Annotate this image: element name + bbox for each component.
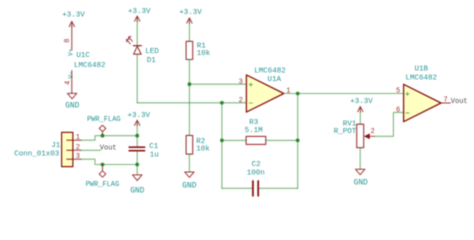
svg-text:3: 3 (239, 78, 243, 86)
svg-text:GND: GND (65, 102, 79, 111)
svg-text:+3.3V: +3.3V (128, 8, 151, 16)
svg-text:C1: C1 (149, 143, 159, 151)
power +3.3V (C1 / J1 rail) (128, 112, 151, 136)
wire RV1 bottom to ground (359, 148, 361, 169)
junction R3 right node (296, 139, 300, 143)
svg-text:1: 1 (76, 134, 80, 142)
svg-text:U1C: U1C (76, 52, 90, 60)
svg-text:Conn_01x03: Conn_01x03 (14, 151, 60, 159)
potentiometer RV1 R_POT (334, 120, 375, 147)
wire rail to C1 top plate (136, 136, 138, 147)
wire inverting node down (feedback left leg) (221, 103, 223, 189)
power flag PWR_FLAG (bottom) (86, 165, 120, 190)
wire junction to U1A pin 3 (189, 83, 246, 85)
svg-text:7: 7 (443, 97, 447, 105)
svg-text:U1B: U1B (415, 66, 429, 74)
junction PWR_FLAG top / +3.3V rail (101, 134, 105, 138)
wire output node down (feedback right leg) (297, 94, 299, 189)
svg-text:2: 2 (239, 97, 243, 105)
ground (RV1) (354, 169, 368, 187)
svg-text:Vout: Vout (100, 145, 117, 153)
svg-text:3: 3 (76, 153, 80, 161)
resistor R3 5.1M (245, 119, 266, 144)
capacitor C2 100n (247, 161, 265, 196)
junction inverting input node (220, 101, 224, 105)
wire node to U1A pin 2 (137, 102, 246, 104)
svg-text:5.1M: 5.1M (245, 127, 264, 135)
wire U1A output to U1B pin 5 (284, 93, 404, 95)
wire R3 left (222, 139, 246, 141)
svg-text:GND: GND (130, 186, 144, 195)
svg-text:+3.3V: +3.3V (62, 12, 85, 20)
op-amp U1C reference and value (74, 52, 106, 70)
svg-text:PWR_FLAG: PWR_FLAG (87, 116, 121, 124)
J1 pin 2 (73, 144, 81, 152)
U1B pin 7 output stub (441, 102, 450, 104)
svg-text:+3.3V: +3.3V (350, 98, 373, 106)
J1 pin 1 (73, 134, 81, 142)
svg-text:1u: 1u (150, 152, 159, 160)
op-amp U1C power unit pin 8 (V+) (64, 26, 75, 56)
svg-text:8: 8 (64, 39, 72, 43)
wire LED anode down to inverting input node (136, 54, 138, 103)
junction C1 bottom / GND rail (135, 163, 139, 167)
power flag PWR_FLAG (top) (87, 116, 121, 136)
svg-text:5: 5 (396, 87, 400, 95)
wire +3.3V to LED cathode (136, 21, 138, 46)
wire J1 pin2 stub for Vout label (81, 149, 101, 151)
connector J1 Conn_01x03 (14, 132, 73, 166)
wire RV1 wiper to U1B pin 6 (375, 112, 404, 136)
svg-text:6: 6 (396, 106, 400, 114)
svg-text:+3.3V: +3.3V (128, 112, 151, 120)
wire R2 to ground (188, 154, 190, 172)
svg-text:LED: LED (145, 48, 159, 56)
svg-text:LMC6482: LMC6482 (74, 62, 106, 70)
capacitor C1 1u (129, 143, 159, 160)
op-amp U1C power unit pin 4 (V-) (64, 71, 74, 94)
wire R3 right (266, 139, 298, 141)
svg-text:V+: V+ (68, 48, 75, 56)
J1 pin 3 (73, 153, 81, 161)
svg-text:10k: 10k (196, 145, 210, 153)
resistor R1 10k (186, 41, 211, 59)
svg-text:4: 4 (64, 81, 72, 85)
ground (R2) (182, 172, 196, 191)
power +3.3V (LED D1) (128, 8, 151, 22)
ground (U1C) (65, 93, 79, 110)
svg-text:LMC6482: LMC6482 (406, 74, 438, 82)
wire J1 pin1 to +3.3V rail (81, 136, 138, 141)
power +3.3V (R1) (179, 9, 202, 24)
junction U1A output node (296, 92, 300, 96)
svg-text:Vout: Vout (451, 98, 468, 106)
junction PWR_FLAG bottom / GND rail (101, 163, 105, 167)
ground (C1) (130, 175, 144, 195)
LED D1 (127, 37, 160, 65)
svg-text:V-: V- (68, 71, 75, 78)
svg-text:C2: C2 (252, 161, 261, 169)
wire R1 bottom through junction down to R2 (188, 60, 190, 136)
wire C2 right (259, 187, 298, 189)
svg-text:10k: 10k (197, 50, 211, 58)
svg-text:J1: J1 (51, 142, 61, 150)
svg-text:+3.3V: +3.3V (179, 9, 202, 17)
junction +3.3V / C1 top (135, 134, 139, 138)
junction R1/R2 divider node (188, 82, 192, 86)
op-amp U1A LMC6482 (246, 67, 285, 112)
resistor R2 10k (186, 135, 210, 154)
wire +3.3V to R1 (188, 23, 190, 42)
svg-text:GND: GND (182, 182, 196, 191)
svg-text:2: 2 (370, 128, 374, 136)
svg-text:PWR_FLAG: PWR_FLAG (86, 181, 120, 189)
power +3.3V (RV1) (350, 98, 373, 124)
svg-text:R_POT: R_POT (334, 128, 357, 136)
op-amp U1B LMC6482 (404, 66, 441, 122)
svg-text:GND: GND (354, 179, 368, 188)
svg-text:LMC6482: LMC6482 (254, 67, 286, 75)
wire C2 left (222, 187, 252, 189)
wire C1 bottom plate to GND rail and ground (136, 151, 138, 174)
power +3.3V (U1C supply) (62, 12, 85, 28)
junction R3 left node (220, 139, 224, 143)
svg-text:1: 1 (286, 87, 290, 95)
svg-text:D1: D1 (147, 57, 157, 65)
wire J1 pin3 to GND rail (81, 159, 138, 164)
svg-text:2: 2 (76, 144, 80, 152)
svg-text:100n: 100n (247, 169, 265, 177)
svg-text:U1A: U1A (267, 76, 281, 84)
